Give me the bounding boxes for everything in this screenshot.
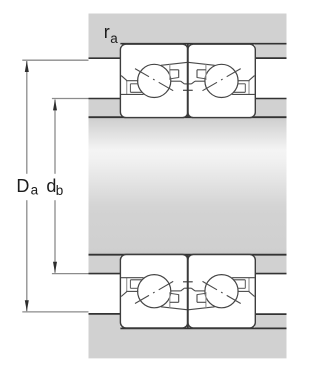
bearing U4 bottom-right box [188,255,256,328]
bearing U1 top-left box [120,44,187,117]
dimension Da vertical line upper [26,61,28,174]
svg-text:r: r [104,22,110,42]
top right inner abutment ring [255,99,287,117]
bearing U3 internals [121,275,193,310]
bottom inner ring bottom line right [255,273,287,275]
svg-text:D: D [16,176,29,196]
top inner ring top line right [255,98,287,100]
dimension db extension line top [52,98,89,100]
bottom inner ring bottom line left db [89,273,121,275]
top pair joint line [187,44,189,117]
shaft bottom surface line [89,254,287,256]
top right spacer bottom line [255,57,287,59]
top left inner abutment ring [89,99,121,117]
shaft [89,117,287,255]
Da top arrow [25,61,29,72]
dimension Da extension line bottom [22,311,88,313]
bearing U4 internals [183,275,255,310]
bottom left housing shoulder line Da [89,313,121,315]
dimension db vertical line upper [54,100,56,174]
top inner ring top line left db [89,98,121,100]
bottom left inner abutment ring [89,255,121,273]
bottom right spacer top line [255,313,287,315]
svg-text:b: b [56,183,64,198]
shaft top surface line [89,116,287,118]
top left housing shoulder line Da [89,57,121,59]
bottom housing block with left shoulder [89,314,287,359]
bearing U3 bottom-left box [120,255,187,328]
top housing bore line [120,43,286,45]
top housing block with left shoulder [89,14,287,59]
db bottom arrow [53,262,57,273]
bottom housing bore line [120,327,286,329]
bottom right inner abutment ring [255,255,287,273]
db top arrow [53,99,57,110]
dimension Da vertical line lower [26,200,28,311]
bearing U1 internals [121,62,193,97]
bottom right outer spacer ring [255,315,287,328]
dimension db extension line bottom [52,273,89,275]
svg-text:a: a [31,183,39,198]
Da bottom arrow [25,300,29,311]
bottom pair joint line [187,255,189,328]
bearing U2 internals [183,62,255,97]
bearing U2 top-right box [188,44,256,117]
dimension db vertical line lower [54,200,56,273]
svg-text:a: a [110,31,118,46]
top right outer spacer ring [255,44,287,57]
dimension Da extension line top [22,59,88,61]
